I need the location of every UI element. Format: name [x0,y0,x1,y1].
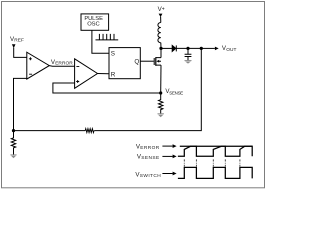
wire VREF to op-amp + input [14,48,27,58]
svg-text:REF: REF [14,37,24,43]
label VSENSE [165,88,183,96]
wire U1 output to comparator minus input [49,65,74,68]
V+ arrow [159,14,163,18]
label VREF [10,36,24,44]
wire source to VSENSE node [160,65,162,93]
wire feedback right segment [94,48,201,130]
wire comparator + input to VSENSE node [53,83,161,93]
node VSENSE [159,91,162,94]
svg-text:R: R [111,72,116,79]
label VSENSE waveform [137,154,160,162]
VREF arrow [12,44,16,48]
arrow VERROR [162,145,172,147]
resistor R1 sense [159,93,163,114]
waveform VSENSE trace [178,146,252,156]
svg-text:OSC: OSC [87,22,99,28]
wire PULSE OSC to latch S [92,30,109,53]
svg-text:Q: Q [134,58,139,65]
arrow VSWITCH [162,173,172,175]
ground below R2 [10,154,16,156]
svg-text:SENSE: SENSE [169,90,183,95]
svg-text:ERROR: ERROR [55,60,73,66]
label V+ [158,6,165,13]
node switch junction [159,47,162,50]
node feedback divider [12,129,15,132]
resistor R3 feedback [85,129,94,133]
wire diode to output node [176,47,201,49]
svg-text:SWITCH: SWITCH [140,173,161,179]
resistor R2 lower divider [11,131,15,155]
pulse train symbol [96,34,119,40]
arrow VSENSE [162,155,172,157]
wire node to diode [161,47,172,49]
capacitor C1 [185,48,192,60]
border frame [2,2,265,188]
svg-text:S: S [111,50,115,57]
wire U1 minus input to feedback node [14,78,27,130]
transistor Q1 NMOS [140,60,154,62]
svg-text:+: + [162,7,165,13]
waveform VERROR level line [180,145,252,147]
svg-text:OUT: OUT [226,47,236,53]
svg-text:ERROR: ERROR [140,145,159,151]
op-amp U2 PWM comparator [75,59,98,89]
ground below R1 [158,113,164,115]
wire drain to switch node [160,48,162,57]
diode D1 [172,45,176,51]
svg-text:SENSE: SENSE [141,155,159,161]
label VERROR [51,59,73,67]
ground below C1 [185,60,192,62]
box PULSE OSC [81,14,109,30]
wire comparator output to latch R [98,73,110,75]
label VOUT [222,45,237,53]
node capacitor junction [186,47,189,50]
wire V+ to inductor [160,17,162,23]
label VERROR waveform [136,144,160,152]
inductor L1 [158,23,161,43]
wire inductor to switch node [160,43,162,49]
wire to VOUT arrow [201,47,215,49]
wire feedback left segment [14,130,86,132]
label VSWITCH waveform [135,171,161,179]
op-amp U1 error amplifier [27,52,50,79]
waveform VSWITCH trace [178,167,252,178]
dashed timing lines [184,159,240,167]
latch U3 SR flip-flop [109,48,140,79]
node feedback junction [200,47,203,50]
